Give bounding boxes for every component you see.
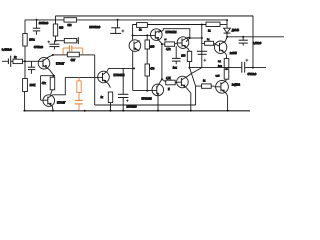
svg-text:2к: 2к <box>208 30 211 33</box>
resistor Rh5 <box>202 39 214 45</box>
svg-text:4М7: 4М7 <box>71 59 76 62</box>
wire V253 <box>252 16 254 68</box>
svg-text:4,7к: 4,7к <box>166 48 171 51</box>
wire T9 emitter down <box>227 96 229 111</box>
svg-text:П: П <box>168 89 170 91</box>
wire feedback row <box>95 104 196 106</box>
transistor Ta KT361 <box>38 55 65 76</box>
svg-text:100: 100 <box>150 46 155 49</box>
transistor T7 KT3102 <box>142 79 164 100</box>
capacitor C6 1mk <box>172 46 181 69</box>
capacitor C8 0,1MkF <box>239 37 262 46</box>
transistor T8 <box>177 73 192 93</box>
svg-text:1к: 1к <box>207 39 209 41</box>
transistor T9 <box>214 79 240 96</box>
resistor Rh47k 4,7k <box>162 42 177 51</box>
wire D1 node to Rh6 <box>190 68 196 87</box>
svg-text:100к: 100к <box>29 39 35 42</box>
node A junction <box>52 54 54 56</box>
svg-text:1мк: 1мк <box>218 65 222 67</box>
resistor R100 <box>145 40 155 49</box>
wire T4 node to V201 <box>190 37 202 39</box>
svg-text:0,1: 0,1 <box>218 61 222 63</box>
svg-text:100: 100 <box>181 55 186 58</box>
wire input node <box>23 60 38 62</box>
svg-text:2хЛ9Б: 2хЛ9Б <box>230 52 237 55</box>
svg-text:0,1МкФ: 0,1МкФ <box>253 42 262 45</box>
resistor R100b <box>181 51 191 61</box>
resistor R47k <box>42 76 55 95</box>
svg-text:0,15: 0,15 <box>216 76 221 78</box>
resistor Rh6 <box>202 81 215 89</box>
resistor Rh2 <box>64 39 76 43</box>
svg-text:47к: 47к <box>42 82 47 85</box>
wire V95 <box>94 55 96 105</box>
wire base Tb node <box>41 75 54 77</box>
capacitor C4 1000MkF <box>89 19 124 34</box>
capacitor Cin 0,47MkF <box>2 48 12 67</box>
wire R100 top lead <box>146 35 148 40</box>
node B junction <box>55 40 57 42</box>
resistor R-orange vertical <box>77 77 81 100</box>
svg-text:1к: 1к <box>14 56 17 59</box>
wire left column middle <box>24 46 26 79</box>
transistor T2 KT503EM <box>98 68 125 87</box>
wire V134 <box>132 25 134 41</box>
wire Rh6 left lead <box>196 86 202 105</box>
svg-text:100МкФ: 100МкФ <box>39 21 49 25</box>
svg-text:2хД502: 2хД502 <box>232 84 241 87</box>
wire R100b to H5 node <box>189 62 191 68</box>
wire T4 collector diag <box>186 38 190 42</box>
svg-text:КТ3102М: КТ3102М <box>142 98 152 101</box>
svg-text:920: 920 <box>68 24 73 27</box>
wire T2 collector row <box>109 67 134 69</box>
svg-text:470: 470 <box>150 67 155 70</box>
wire V201 <box>201 25 203 52</box>
junction T2 collector <box>133 67 135 69</box>
resistor Rin 1k <box>11 56 23 63</box>
svg-text:КТ502ЕМ: КТ502ЕМ <box>166 31 177 34</box>
wire bottom ground rail <box>24 110 251 112</box>
resistor R2K <box>206 22 227 32</box>
resistor Rh4 <box>162 78 178 91</box>
wire H2 <box>25 19 227 21</box>
wire to T3 base <box>133 34 156 36</box>
wire Tb collector elbow <box>52 77 66 94</box>
input terminal wire <box>2 60 8 62</box>
wire top supply rail <box>56 15 254 17</box>
wire Hb base row T2 <box>65 76 97 78</box>
resistor R470 <box>145 64 155 76</box>
svg-text:920: 920 <box>59 27 64 30</box>
svg-text:130К: 130К <box>30 83 36 87</box>
resistor R1k horizontal <box>137 23 148 32</box>
wire to terminal bar <box>77 40 79 42</box>
wire H4 right rail <box>227 36 284 38</box>
svg-text:КТ361Г: КТ361Г <box>56 63 65 66</box>
svg-text:1мк: 1мк <box>173 66 178 69</box>
resistor Rv1 920 vertical <box>53 16 64 41</box>
wire node B to R trim <box>56 40 65 42</box>
wire D2 V201 to T8 <box>192 68 202 74</box>
resistor Re 1k <box>101 92 113 111</box>
svg-text:1000МкФ: 1000МкФ <box>127 105 137 108</box>
wire node A row <box>53 54 67 56</box>
resistor Rv2 100k vertical <box>23 34 27 47</box>
svg-text:1к: 1к <box>203 81 206 83</box>
transistor T5 <box>214 37 238 55</box>
wire Rh3 to V95 <box>79 54 94 56</box>
wire T3 emitter junction <box>161 44 163 80</box>
svg-text:4,7К: 4,7К <box>166 78 171 80</box>
transistor T1 <box>129 40 141 52</box>
svg-text:1к: 1к <box>101 96 104 99</box>
wire V1 left column <box>24 20 26 34</box>
resistor R920 horizontal <box>64 18 77 27</box>
wire R470 bottom lead <box>146 76 148 91</box>
wire T1 emitter down <box>132 51 134 91</box>
svg-text:1к: 1к <box>139 29 142 32</box>
resistor Rh3 4M7 <box>67 52 79 62</box>
wire C T3 to T4 collector <box>163 29 190 38</box>
svg-text:0,47МкФ: 0,47МкФ <box>2 48 12 51</box>
wire base row T7 <box>133 90 157 92</box>
wire T7 emitter down <box>157 95 159 110</box>
svg-text:пг: пг <box>165 39 167 41</box>
resistor Rv3 130K <box>23 79 36 111</box>
capacitor C1 100MkF <box>33 19 49 35</box>
wire H3 <box>132 24 206 26</box>
wire T8 emitter down <box>190 93 192 111</box>
svg-text:1000МкФ: 1000МкФ <box>89 25 100 29</box>
wire H5 output <box>190 67 242 69</box>
wire R100 to R470 <box>146 49 148 64</box>
svg-text:Д814Б: Д814Б <box>232 29 240 32</box>
capacitor C3 hanging <box>28 61 35 74</box>
transistor T3 KT502EM <box>151 29 177 44</box>
resistor B1 <box>218 55 229 70</box>
junction emitter Ta <box>53 75 55 77</box>
capacitor C-orange1 <box>63 45 83 55</box>
svg-text:470МкФ: 470МкФ <box>247 73 256 76</box>
transistor T4 <box>177 37 190 52</box>
diode D1 zener <box>224 20 240 37</box>
capacitor C2 470MkF <box>34 41 60 50</box>
capacitor C7 <box>197 51 207 67</box>
svg-text:470МкФ: 470МкФ <box>34 46 43 49</box>
resistor B2 0,15 <box>216 70 229 80</box>
junction dots bottom rail <box>24 110 229 112</box>
wire Tb base drop <box>40 76 42 101</box>
capacitor C5 1000MkF <box>118 68 137 110</box>
transistor Tb KT361 <box>41 95 67 111</box>
svg-text:КТ361Г: КТ361Г <box>57 102 66 105</box>
capacitor C-orange2 <box>75 100 83 110</box>
capacitor C9 470MkF output <box>242 59 266 76</box>
terminal bar <box>77 37 79 44</box>
